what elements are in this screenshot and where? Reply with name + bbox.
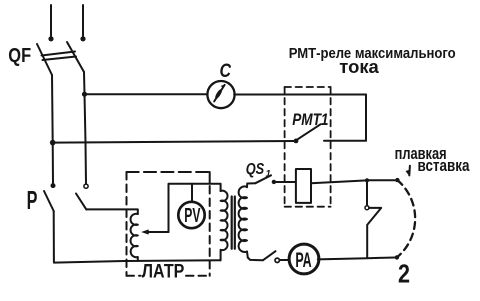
wire secondary top to QS1	[247, 183, 255, 187]
wire contact to PA	[280, 259, 290, 261]
svg-text:вставка: вставка	[418, 156, 470, 175]
wire P right to LATR	[86, 209, 138, 214]
transformer T primary winding	[221, 191, 228, 261]
meter PA	[289, 244, 319, 274]
node fuse bottom terminal	[395, 255, 399, 259]
wire QS1 to relay coil	[276, 181, 296, 183]
wire secondary bottom	[247, 252, 263, 261]
wire C to corner	[234, 94, 366, 96]
node QF fixed contact left	[48, 36, 53, 41]
wire supply line L1	[50, 5, 52, 36]
node contact before PA	[275, 258, 279, 262]
svg-text:РА: РА	[295, 248, 311, 272]
wire to RMT1 contact	[324, 140, 366, 142]
svg-text:тока: тока	[339, 57, 380, 77]
meter C	[207, 81, 234, 108]
wire supply line L2	[82, 5, 84, 36]
switch P blade right	[76, 194, 86, 210]
box RMT1 dashed	[285, 87, 331, 207]
node QS1 contact dot	[272, 180, 276, 184]
switch P blade left	[44, 191, 54, 211]
transformer T core	[232, 197, 235, 249]
meter PV	[178, 202, 204, 228]
inductor LATR winding	[131, 214, 138, 261]
wire RMT1 contact to left pole	[53, 141, 296, 143]
breaker QF linkage bar	[42, 52, 77, 61]
switch element in fuse branch	[366, 180, 368, 205]
node junction right pole to C wire	[82, 92, 87, 97]
node P fixed contact right	[84, 184, 88, 188]
wire relay coil to junction	[311, 180, 367, 183]
svg-text:Р: Р	[27, 185, 38, 215]
wire PV tap	[191, 184, 193, 202]
wire junction to fuse top	[367, 179, 395, 181]
wire P left down	[53, 211, 55, 262]
wire right pole vertical	[84, 72, 86, 184]
wiper arrow of LATR	[146, 231, 169, 233]
wire to ammeter C	[85, 93, 208, 95]
breaker QF blade right	[67, 42, 84, 72]
wire left pole vertical	[52, 75, 53, 183]
transformer T secondary winding	[239, 186, 247, 252]
box LATR dashed	[127, 172, 210, 276]
node junction fuse branch	[365, 178, 369, 182]
svg-text:C: C	[220, 61, 232, 82]
node fuse top terminal	[395, 178, 399, 182]
svg-text:PV: PV	[184, 205, 201, 227]
wire corner down	[365, 95, 367, 141]
fuse body dashed arc	[397, 180, 415, 257]
wire bottom return	[54, 260, 220, 262]
relay coil RMT1	[296, 169, 311, 203]
svg-text:2: 2	[398, 259, 410, 289]
relay contact RMT1 blade	[297, 124, 320, 139]
svg-text:РМТ1: РМТ1	[292, 111, 328, 129]
switch QS1 blade	[255, 175, 271, 183]
breaker QF blade left	[37, 44, 52, 75]
leader arrow to fuse	[408, 166, 411, 176]
svg-text:ЛАТР: ЛАТР	[142, 261, 185, 282]
wire PA to fuse bottom	[318, 258, 395, 260]
node junction left pole	[50, 140, 56, 146]
wire wiper up and over	[169, 184, 221, 232]
node P fixed contact left	[51, 183, 56, 188]
switch blade before PA	[263, 251, 276, 260]
svg-text:QF: QF	[8, 45, 31, 67]
svg-text:QS: QS	[246, 161, 265, 178]
node QF fixed contact right	[80, 36, 85, 41]
svg-text:1: 1	[266, 169, 271, 180]
node RMT1 contact dot	[294, 139, 299, 144]
